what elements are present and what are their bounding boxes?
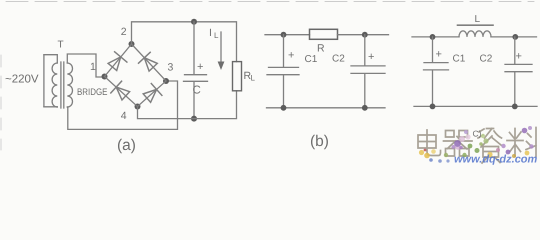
junction dot (c) bottom left	[430, 104, 436, 110]
inductor L winding	[459, 31, 491, 37]
wire: (c) top rail right	[491, 36, 537, 38]
wire: capacitor C upper lead	[193, 22, 195, 74]
node 1	[102, 74, 108, 80]
current IL arrow	[220, 32, 222, 62]
svg-text:L: L	[214, 31, 219, 40]
svg-text:~220V: ~220V	[5, 74, 39, 86]
junction dot (b) top left	[281, 32, 287, 38]
svg-text:+: +	[288, 50, 294, 62]
diode D1 (node1 to node2)	[108, 52, 127, 71]
wire: top border artifact line	[6, 1, 534, 3]
junction dot (b) bottom left	[281, 105, 287, 111]
wire: node4 down and bottom rail to RL	[138, 91, 237, 119]
wire: capacitor C2(c) lower lead	[514, 72, 516, 106]
svg-text:C2: C2	[480, 54, 493, 65]
wire: (c) top rail left	[412, 36, 459, 38]
wire: secondary bottom to node 3 loop	[67, 81, 177, 129]
diode D2 (node3 to node2)	[139, 52, 158, 71]
wire: capacitor C1(b) upper lead	[283, 35, 285, 67]
svg-text:L: L	[251, 74, 256, 83]
junction dot (b) top right	[362, 32, 368, 38]
wire: bridge edge node1-node2	[105, 44, 132, 77]
inductor L core bar	[458, 24, 494, 26]
junction dot (c) top left	[430, 34, 436, 40]
capacitor C1(c) plates	[424, 63, 449, 70]
diode D3 (node4 to node1)	[111, 81, 130, 100]
svg-text:+: +	[516, 51, 522, 63]
resistor RL box	[233, 62, 242, 91]
wire: capacitor C2(b) upper lead	[364, 35, 366, 65]
capacitor C2(c) plates	[505, 64, 532, 71]
svg-text:(b): (b)	[310, 133, 329, 150]
svg-text:T: T	[58, 40, 64, 51]
node 3	[163, 78, 169, 84]
transformer T secondary winding	[67, 63, 72, 107]
wire: capacitor C2(b) lower lead	[364, 74, 366, 108]
resistor R box	[310, 29, 338, 39]
watermark char DIAN	[418, 130, 441, 156]
wire: (b) top rail left	[265, 34, 310, 36]
svg-text:R: R	[317, 43, 325, 55]
svg-text:C1: C1	[305, 54, 318, 65]
wire: node2 up and top rail to RL	[132, 22, 237, 62]
svg-text:1: 1	[90, 61, 96, 73]
watermark char LIAO	[507, 128, 536, 157]
transformer T core line 1	[60, 62, 62, 108]
svg-text:BRIDGE: BRIDGE	[77, 87, 108, 98]
watermark flower accents	[419, 126, 534, 163]
watermark char QI	[444, 131, 473, 157]
svg-text:www.dq-dz.com: www.dq-dz.com	[454, 154, 538, 166]
junction dot (c) top right	[512, 34, 518, 40]
wire: (b) top rail right	[338, 34, 389, 36]
svg-text:L: L	[475, 14, 481, 25]
wire: bridge edge node4-node3	[138, 81, 167, 107]
capacitor C plates	[184, 75, 208, 82]
node 2	[129, 41, 135, 47]
junction dot top rail / C branch	[191, 19, 197, 25]
watermark char ZI	[478, 129, 502, 164]
wire: bridge edge node2-node3	[132, 44, 167, 81]
junction dot bottom rail / C branch	[191, 116, 197, 122]
wire: capacitor C2(c) upper lead	[514, 37, 516, 64]
svg-text:(a): (a)	[117, 137, 136, 154]
transformer T primary winding	[52, 63, 57, 107]
node 4	[135, 104, 141, 110]
svg-text:+: +	[436, 49, 442, 61]
svg-text:+: +	[368, 51, 374, 63]
svg-text:2: 2	[121, 26, 127, 38]
wire: (c) bottom rail	[414, 105, 537, 107]
wire: primary bottom horizontal	[44, 106, 57, 108]
svg-text:I: I	[209, 27, 212, 39]
svg-text:C1: C1	[453, 54, 466, 65]
svg-text:C2: C2	[332, 54, 345, 65]
junction dot (b) bottom right	[362, 105, 368, 111]
capacitor C1(b) plates	[267, 67, 299, 74]
svg-text:4: 4	[121, 110, 127, 122]
svg-text:+: +	[197, 61, 203, 73]
wire: capacitor C1(c) lower lead	[432, 71, 434, 107]
wire: bridge edge node1-node4	[105, 77, 138, 107]
wire: capacitor C1(c) upper lead	[432, 37, 434, 62]
transformer T core line 2	[63, 62, 65, 108]
svg-text:3: 3	[168, 62, 174, 74]
wire: secondary top to node 1	[67, 54, 101, 77]
wire: primary loop left vertical	[43, 55, 45, 107]
svg-text:C): C)	[473, 129, 482, 139]
wire: (b) bottom rail	[267, 107, 386, 109]
junction dot (c) bottom right	[512, 104, 518, 110]
wire: primary top horizontal	[44, 55, 57, 63]
wire: left border artifact line	[0, 55, 2, 150]
capacitor C2(b) plates	[351, 66, 385, 74]
wire: capacitor C lower lead	[193, 82, 195, 119]
diode D4 (node4 to node3)	[143, 84, 162, 103]
wire: capacitor C1(b) lower lead	[283, 75, 285, 107]
